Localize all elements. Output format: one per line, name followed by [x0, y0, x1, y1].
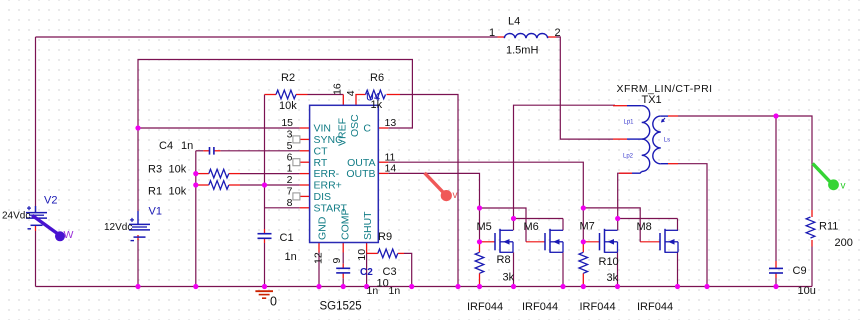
- svg-text:M6: M6: [524, 221, 539, 233]
- svg-text:C2: C2: [360, 267, 373, 278]
- svg-text:12: 12: [313, 252, 325, 264]
- node C9 top junction: [773, 113, 778, 118]
- node rail junction M7 source: [615, 284, 620, 289]
- svg-text:8: 8: [287, 197, 293, 209]
- node M5/M6 drain junction: [511, 216, 516, 221]
- capacitor C9: [769, 267, 783, 269]
- svg-text:COMP: COMP: [340, 209, 352, 241]
- svg-text:3: 3: [287, 129, 293, 141]
- transformer center tap pin stub: [613, 138, 627, 140]
- wire branch to M6 gate: [480, 208, 527, 242]
- node R3 left junction: [193, 171, 198, 176]
- svg-text:IRF044: IRF044: [467, 301, 503, 313]
- svg-text:GND: GND: [317, 216, 329, 240]
- wire VIN pin15 from 12V branch: [138, 127, 300, 129]
- wire M5 drain stub: [513, 219, 515, 231]
- node rail junction C4 branch: [193, 284, 198, 289]
- node rail junction secondary return: [704, 284, 709, 289]
- svg-text:10k: 10k: [279, 100, 297, 112]
- node rail junction M8 source: [675, 284, 680, 289]
- unconnected pin marker pin 7: [293, 193, 300, 200]
- svg-text:1: 1: [489, 27, 495, 39]
- pin stub L4 pin1: [498, 36, 505, 38]
- svg-text:Ls: Ls: [664, 137, 670, 143]
- wire M6 source to rail: [562, 252, 564, 286]
- wire R3 right to pin1 ERR-: [240, 173, 300, 175]
- capacitor C2: [336, 267, 350, 269]
- svg-text:C1: C1: [280, 232, 294, 244]
- svg-text:R3: R3: [148, 164, 162, 176]
- node 12V-VIN junction: [135, 125, 140, 130]
- C2 top stub: [342, 264, 344, 269]
- resistor R9: [378, 249, 398, 258]
- pin 10 stub: [366, 243, 368, 253]
- svg-text:M5: M5: [477, 221, 492, 233]
- pin 2 stub: [300, 184, 310, 186]
- wire R11 bottom to rail: [811, 247, 813, 287]
- svg-text:L4: L4: [508, 16, 520, 28]
- C9 bottom stub: [775, 273, 777, 278]
- resistor R2: [276, 90, 296, 99]
- svg-text:R11: R11: [819, 221, 838, 233]
- svg-text:1n: 1n: [367, 285, 379, 297]
- pin 12 stub: [318, 243, 320, 253]
- svg-text:ERR+: ERR+: [314, 180, 342, 192]
- wire secondary top to R11: [678, 116, 812, 210]
- wire branch to M8 gate: [583, 208, 640, 242]
- node rail junction R10: [581, 284, 586, 289]
- node M7 gate junction: [581, 239, 586, 244]
- svg-text:W: W: [64, 229, 74, 241]
- wire pin12 GND to rail: [318, 253, 320, 287]
- R8 bottom stub: [479, 273, 481, 286]
- op-amp/PWM controller U4 SG1525 box: [310, 105, 379, 242]
- wire C4/R3/R1 common vertical to rail: [195, 151, 197, 287]
- wire C9 bottom to rail: [775, 278, 777, 287]
- wire M6 drain stub: [562, 219, 564, 231]
- pin 7 stub: [300, 195, 310, 197]
- wire R9 right down to rail: [404, 253, 412, 286]
- wire 12V: pin13 up-over loop to V1+: [138, 60, 412, 212]
- svg-text:VREF: VREF: [337, 118, 349, 146]
- svg-text:V2: V2: [44, 195, 57, 207]
- svg-text:C9: C9: [793, 265, 807, 277]
- wire V2- to ground rail: [35, 231, 37, 287]
- wire pin8 START to C1 branch: [265, 207, 300, 209]
- svg-text:U4: U4: [366, 92, 380, 104]
- svg-text:5: 5: [287, 140, 293, 152]
- wire L4 pin2 down to primary center tap: [556, 37, 613, 139]
- svg-text:16: 16: [332, 83, 344, 95]
- node rail junction C2: [341, 284, 346, 289]
- svg-text:IRF044: IRF044: [637, 301, 673, 313]
- svg-text:VIN: VIN: [314, 123, 332, 135]
- C2 bottom stub: [342, 273, 344, 278]
- svg-text:R9: R9: [378, 231, 392, 243]
- svg-text:C4: C4: [159, 140, 173, 152]
- C4 left stub: [203, 150, 209, 152]
- svg-text:R1: R1: [148, 186, 162, 198]
- V1 bottom stub: [137, 235, 139, 240]
- svg-text:7: 7: [287, 186, 293, 198]
- svg-text:1n: 1n: [389, 285, 401, 297]
- R10 bottom stub: [582, 273, 584, 286]
- svg-text:13: 13: [385, 117, 397, 129]
- svg-text:R6: R6: [370, 72, 384, 84]
- V2 top lead: [35, 206, 37, 213]
- R9 left stub: [367, 252, 378, 254]
- R1 right stub: [229, 184, 240, 186]
- R8 top stub: [479, 242, 481, 253]
- node M5 gate junction: [477, 239, 482, 244]
- svg-text:v: v: [841, 181, 846, 192]
- R11 top stub: [811, 210, 813, 217]
- svg-text:CT: CT: [314, 145, 329, 157]
- wire M7 drain to M8 drain: [618, 218, 678, 220]
- wire primary bottom down to M7 drain: [618, 173, 632, 218]
- wire M5 source to rail: [513, 252, 515, 286]
- wire 24V: top horizontal to L4 pin 1: [36, 36, 498, 38]
- svg-text:IRF044: IRF044: [522, 301, 558, 313]
- wire gate column to R10/M7 gate: [582, 208, 584, 242]
- node rail junction R8: [477, 284, 482, 289]
- unconnected pin marker pin 6: [293, 159, 300, 166]
- voltage probe on OUTB net (red): [425, 173, 452, 201]
- voltage probe W on V2 (purple): [32, 215, 65, 241]
- wire gate column to R8/M5 gate: [479, 208, 481, 242]
- svg-text:200: 200: [835, 237, 853, 249]
- svg-text:6: 6: [287, 151, 293, 163]
- pin stub L4 pin2: [548, 36, 556, 38]
- svg-text:TX1: TX1: [642, 94, 662, 106]
- svg-text:C: C: [363, 123, 371, 135]
- pin 4 stub: [356, 95, 366, 106]
- wire OUTB pin14 to M5/M6 gate column: [388, 173, 479, 208]
- wire stub M5 gate: [480, 241, 496, 243]
- R3 right stub: [229, 173, 240, 175]
- svg-text:3k: 3k: [503, 272, 515, 284]
- svg-text:1.5mH: 1.5mH: [506, 45, 538, 57]
- svg-text:C3: C3: [383, 266, 397, 278]
- svg-text:OUTA: OUTA: [347, 157, 375, 169]
- C1 bottom stub: [264, 238, 266, 243]
- svg-text:SG1525: SG1525: [320, 301, 362, 313]
- R2 right stub: [296, 94, 308, 96]
- svg-text:10k: 10k: [169, 164, 187, 176]
- svg-text:Lp2: Lp2: [623, 153, 634, 159]
- svg-text:15: 15: [281, 117, 293, 129]
- node OUTA gate branch: [581, 205, 586, 210]
- svg-text:2: 2: [555, 27, 561, 39]
- transformer TX1 XFRM_LIN/CT-PRI: [627, 106, 668, 174]
- svg-text:DIS: DIS: [314, 191, 332, 203]
- svg-text:R10: R10: [599, 256, 619, 268]
- wire pin9 COMP to C2: [342, 253, 344, 264]
- pin 16 stub: [342, 95, 344, 106]
- svg-text:OSC: OSC: [349, 114, 361, 137]
- svg-text:M7: M7: [580, 221, 595, 233]
- voltage source V1 battery symbol: [129, 218, 150, 241]
- C1 top stub: [264, 229, 266, 234]
- node rail junction C1: [262, 284, 267, 289]
- resistor R6: [366, 90, 386, 99]
- transistor M6: [545, 229, 563, 253]
- svg-text:1n: 1n: [285, 251, 297, 263]
- svg-text:11: 11: [385, 151, 396, 163]
- pin 5 stub: [300, 150, 310, 152]
- node rail junction C3: [364, 284, 369, 289]
- V1 top lead: [137, 211, 139, 224]
- svg-text:v: v: [453, 190, 458, 201]
- wire C4 right to pin5 CT: [220, 150, 299, 152]
- svg-text:2: 2: [287, 174, 293, 186]
- wire M7 drain stub: [617, 219, 619, 231]
- pin 14 stub: [378, 172, 388, 174]
- inductor L4: [504, 34, 547, 39]
- wire R1 right to pin2 ERR+: [240, 184, 300, 186]
- svg-text:ERR-: ERR-: [314, 168, 340, 180]
- svg-text:V1: V1: [149, 206, 162, 218]
- node rail junction M6 source: [560, 284, 565, 289]
- svg-text:9: 9: [331, 258, 343, 264]
- svg-text:SHUT: SHUT: [362, 211, 374, 240]
- pin 6 stub: [300, 161, 310, 163]
- wire 24V: left vertical from top rail to V2+: [35, 37, 37, 213]
- svg-text:R2: R2: [281, 72, 295, 84]
- node R1 left junction: [193, 182, 198, 187]
- wire pin10 SHUT down to rail: [366, 253, 368, 287]
- R3 left stub: [196, 173, 209, 175]
- pin 8 stub: [300, 207, 310, 209]
- transformer primary bottom pin stub: [619, 172, 632, 174]
- svg-text:OUTB: OUTB: [346, 168, 375, 180]
- svg-text:10u: 10u: [798, 285, 816, 297]
- transformer secondary top pin stub: [668, 115, 678, 117]
- svg-text:IRF044: IRF044: [580, 301, 616, 313]
- svg-text:Lp1: Lp1: [624, 120, 635, 126]
- pin 1 stub: [300, 173, 310, 175]
- resistor R10: [579, 252, 588, 273]
- node R1-pin2 vertical junction: [262, 182, 267, 187]
- wire R6 right down to ground rail: [400, 95, 458, 287]
- transformer primary top pin stub: [613, 105, 627, 107]
- transistor M8: [660, 229, 678, 253]
- svg-text:1n: 1n: [181, 140, 193, 152]
- C4 right stub: [214, 150, 221, 152]
- wire R2 right to pin16 VREF stub: [308, 94, 344, 96]
- wire M8 drain stub: [677, 219, 679, 231]
- capacitor C4: [209, 147, 211, 155]
- unconnected pin marker pin 3: [293, 136, 300, 143]
- svg-text:M8: M8: [637, 221, 652, 233]
- node rail junction M5 source: [511, 284, 516, 289]
- node OUTB gate branch: [477, 205, 482, 210]
- svg-text:4: 4: [345, 90, 357, 96]
- svg-text:0: 0: [270, 295, 277, 309]
- resistor R3: [209, 169, 229, 178]
- svg-text:RT: RT: [314, 157, 328, 169]
- wire R2-left vertical down to C1: [264, 95, 266, 230]
- voltage source V2 battery symbol: [26, 206, 47, 229]
- pin 9 stub: [342, 243, 344, 253]
- ground 0: [255, 291, 273, 298]
- resistor R1: [209, 181, 229, 190]
- svg-text:14: 14: [385, 163, 397, 175]
- R11 bottom stub: [811, 240, 813, 247]
- wire C4 left: [196, 150, 204, 152]
- transistor M7: [600, 229, 618, 253]
- wire M5/M6 drains up to transformer primary top: [514, 105, 616, 218]
- C9 top stub: [775, 261, 777, 268]
- resistor R8: [475, 252, 484, 273]
- wire OUTA pin11 to M7/M8 gate column: [388, 162, 583, 208]
- R2 left stub: [265, 94, 277, 96]
- wire V1- to ground rail: [137, 239, 139, 287]
- wire M8 source to rail: [677, 252, 679, 286]
- svg-text:12Vdc: 12Vdc: [104, 222, 132, 233]
- svg-text:XFRM_LIN/CT-PRI: XFRM_LIN/CT-PRI: [617, 83, 713, 95]
- R9 right stub: [398, 252, 404, 254]
- svg-text:10: 10: [377, 278, 389, 290]
- transformer secondary bottom pin stub: [668, 163, 678, 165]
- node rail junction GND pin: [316, 284, 321, 289]
- wire C2 bottom to rail: [342, 278, 344, 286]
- svg-text:10k: 10k: [169, 186, 187, 198]
- svg-text:24Vdc: 24Vdc: [2, 211, 30, 222]
- svg-text:10: 10: [356, 249, 368, 261]
- wire M7 source to rail: [617, 252, 619, 286]
- resistor R11: [806, 217, 815, 238]
- svg-text:1: 1: [287, 163, 293, 175]
- node rail junction R6 branch: [455, 284, 460, 289]
- V2 bottom stub: [35, 226, 37, 231]
- svg-text:3k: 3k: [607, 272, 619, 284]
- pin 15 stub: [300, 127, 310, 129]
- wire C9 top branch: [775, 116, 777, 261]
- wire M5 drain to M6 drain: [514, 218, 564, 220]
- wire secondary bottom to rail: [678, 164, 707, 287]
- R10 top stub: [582, 242, 584, 253]
- wire C1 bottom to ground rail: [264, 243, 266, 287]
- node rail junction R9: [409, 284, 414, 289]
- transistor M5: [495, 229, 513, 253]
- node rail junction C9: [773, 284, 778, 289]
- svg-text:R8: R8: [497, 254, 511, 266]
- node rail junction V1: [135, 284, 140, 289]
- voltage probe on output net (green): [813, 163, 839, 190]
- wire stub M6 gate: [526, 241, 545, 243]
- wire stub M7 gate: [583, 241, 599, 243]
- pin 11 stub: [378, 161, 388, 163]
- pin 13 stub: [378, 127, 388, 129]
- R6 right stub: [387, 94, 401, 96]
- capacitor C1: [258, 233, 272, 235]
- R1 left stub: [196, 184, 209, 186]
- wire stub M8 gate: [640, 241, 660, 243]
- node M7 drain / transformer junction: [615, 216, 620, 221]
- pin 3 stub: [300, 138, 310, 140]
- wire ground bottom rail: [36, 286, 813, 288]
